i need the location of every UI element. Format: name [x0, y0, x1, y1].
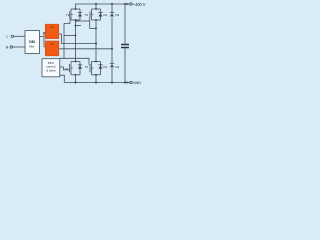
wire lower leg1 source to rail: [75, 75, 77, 83]
transistor T4 with body diode: [90, 62, 103, 75]
wire N input: [13, 46, 26, 48]
svg-text:& drive: & drive: [46, 68, 56, 72]
wire output cap branch: [124, 4, 126, 83]
wire leg2 midpoint vertical: [95, 20, 97, 62]
wire gate drive T4: [60, 58, 89, 64]
junction leg1 midpoint stub B: [75, 25, 77, 27]
wire leg1 midpoint vertical: [75, 20, 77, 62]
wire top rail +400V: [76, 4, 130, 9]
junction slow leg ground rail: [111, 82, 113, 84]
wire lower leg2 source to rail: [95, 75, 97, 83]
svg-text:T2: T2: [85, 13, 89, 17]
capacitor C plates: [121, 45, 129, 48]
wire gate T2 lead: [89, 18, 91, 29]
transistor T1 with body diode: [70, 9, 83, 20]
svg-text:T3: T3: [65, 67, 69, 71]
junction choke L1 to leg2: [95, 43, 97, 45]
junction T1 drain node: [75, 8, 77, 10]
arrow at GND terminal: [127, 81, 130, 83]
svg-text:L: L: [7, 35, 9, 39]
terminal +400V: [130, 3, 132, 5]
junction T4 drain node: [95, 61, 97, 63]
svg-text:+400 V: +400 V: [133, 2, 146, 7]
junction T3 source node: [75, 74, 77, 76]
svg-text:D1: D1: [104, 13, 108, 17]
terminal L: [11, 35, 13, 37]
wire gate T2 horizontal: [90, 27, 96, 29]
junction leg1 midpoint stub A: [75, 20, 77, 22]
junction slow leg top rail: [111, 3, 113, 5]
wire bottom rail GND: [64, 82, 129, 84]
junction cap branch ground rail: [124, 82, 126, 84]
junction T2 drain node: [95, 8, 97, 10]
svg-text:filter: filter: [29, 44, 34, 48]
wire slow leg vertical mid: [111, 18, 113, 64]
terminal N: [10, 46, 12, 48]
wire slow leg vertical bottom: [111, 68, 113, 83]
junction leg1 ground rail: [75, 82, 77, 84]
background: [0, 0, 160, 90]
junction DM output split: [43, 32, 45, 34]
junction leg2 top rail: [95, 3, 97, 5]
choke L1 (highlighted orange): [45, 24, 59, 38]
junction leg2 ground rail: [95, 82, 97, 84]
wire L input: [14, 35, 26, 37]
wire stub leg1 node B: [76, 25, 82, 27]
svg-text:N: N: [6, 45, 9, 49]
junction T1 source node: [75, 19, 77, 21]
junction leg1 midpoint tap: [75, 35, 77, 37]
svg-text:DM: DM: [29, 40, 35, 44]
junction N line to slow leg: [111, 48, 113, 50]
svg-text:D2: D2: [104, 65, 108, 69]
wire gate T1 horizontal: [64, 23, 70, 25]
arrow at +400V terminal: [127, 3, 130, 5]
wire slow leg vertical top: [111, 4, 113, 13]
transistor T3 with body diode: [70, 62, 83, 75]
PFC control and drive box: [42, 59, 60, 77]
svg-text:D4: D4: [116, 65, 120, 69]
terminal GND: [130, 81, 132, 83]
wire leg2 drain to rail: [95, 4, 97, 9]
diode D1 slow leg top: [110, 12, 114, 14]
wire gate T1 lead: [69, 18, 71, 24]
wire choke L1 output: [59, 34, 97, 44]
junction T3 drain node: [75, 61, 77, 63]
wire choke L2 / N line to slow leg: [59, 48, 113, 50]
svg-text:D3: D3: [116, 13, 120, 17]
svg-text:T1: T1: [66, 13, 70, 17]
wire leg1 tap: [64, 35, 76, 37]
svg-text:GND: GND: [133, 81, 142, 85]
junction T2 gate line: [95, 28, 97, 30]
EMI filter box DM: [25, 31, 40, 54]
svg-text:T4: T4: [85, 65, 89, 69]
junction T2 source node: [95, 19, 97, 21]
diode D2 slow leg bottom: [110, 63, 114, 65]
junction cap branch top rail: [124, 3, 126, 5]
wire PFC box to ground rail: [60, 75, 65, 82]
transistor T2 with body diode: [90, 9, 103, 20]
wire DM output to chokes: [40, 33, 46, 47]
text labels: [6, 2, 146, 85]
junction T4 source node: [95, 74, 97, 76]
wire stub leg1 node A: [76, 20, 90, 22]
wire gate bus vertical to PFC box: [63, 24, 65, 59]
choke L2 (highlighted orange): [45, 41, 59, 56]
wire gate drive T3: [60, 67, 70, 70]
